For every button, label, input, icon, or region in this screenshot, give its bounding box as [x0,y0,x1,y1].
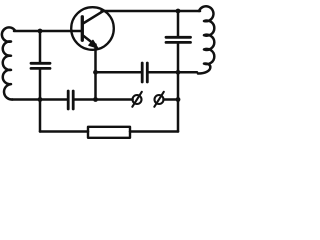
wire: bottom wire right segment [130,130,178,133]
node: junction dot C1 branch / lower horizontal wire [38,97,43,102]
terminal X2 (phones terminal, circle with slash) [155,95,164,104]
capacitor C4 (right tank capacitor) [166,37,191,42]
inductor L2 (right tank coil) [198,6,214,73]
wire: from C2 to terminal X1 [75,98,133,101]
capacitor C1 (left tank capacitor) [31,63,50,68]
transistor Q1 emitter lead [83,36,92,43]
capacitor C2 (series capacitor in lower wire) [68,91,73,109]
wire: C4 upper lead [177,11,180,36]
wire: top wire from collector to right side [102,10,201,13]
transistor Q1 emitter arrowhead [89,40,98,48]
node: junction dot emitter line / lower wire [93,97,98,102]
wire: emitter vertical down [94,45,97,100]
wire: middle horizontal wire from emitter to C3 [96,71,141,74]
wire: bottom wire left segment [40,130,88,133]
wire: C1 lower lead down to bottom wire [39,70,42,132]
wire: from terminal X2 to right vertical [164,98,178,101]
capacitor C3 (coupling capacitor) [142,63,147,82]
transistor Q1 base bar [81,17,84,41]
inductor L1 (left tank coil) [2,27,15,99]
wire: C1 upper lead [39,31,42,62]
resistor R1 [88,127,130,138]
wire: from C3 to right vertical [149,71,197,74]
node: junction dot top wire / C4 [176,9,181,14]
terminal X1 (phones terminal, circle with slash) [133,95,142,104]
wire: base wire from L1 top to transistor base [14,30,82,33]
node: junction dot right vertical / middle wire [176,70,181,75]
wire: C4 lower lead / right vertical down to bottom wire [177,44,180,132]
node: junction dot right vertical / lower wire [176,97,181,102]
transistor Q1 circle [71,7,114,50]
node: junction dot base wire / C1 branch [38,29,43,34]
wire: lower horizontal wire from L1 bottom to C2 [12,98,67,101]
node: junction dot emitter / middle wire [93,70,98,75]
transistor Q1 collector lead [83,11,103,23]
